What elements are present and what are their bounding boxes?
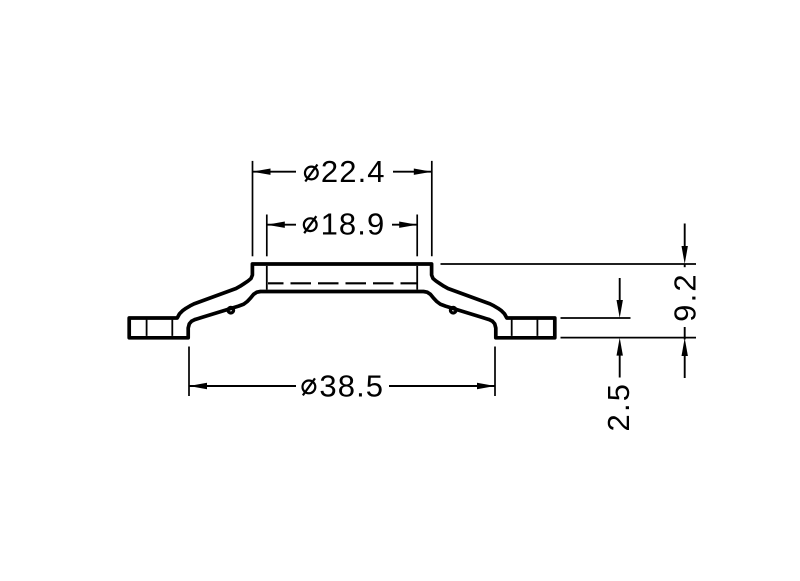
part outline left half (thick visible edge): [129, 264, 342, 338]
dimension ø18.9 text: [304, 218, 317, 231]
inner bore edge right (ø18.9): [416, 266, 418, 290]
dimension ø38.5 extension lines: [188, 347, 190, 397]
svg-text:2.5: 2.5: [601, 382, 636, 432]
svg-text:18.9: 18.9: [321, 207, 386, 242]
dimension 2.5 extension line top: [561, 317, 631, 319]
dimension ø22.4 extension lines: [252, 161, 254, 256]
dimension ø18.9 extension lines: [266, 215, 268, 257]
dimension ø18.9 line + arrows: [267, 224, 296, 226]
dimension 9.2 leaders + arrows: [684, 224, 686, 249]
dimension ø22.4 line + arrows: [253, 171, 297, 173]
svg-text:38.5: 38.5: [319, 369, 384, 404]
hidden dashed line: [268, 282, 417, 284]
svg-text:22.4: 22.4: [321, 154, 386, 189]
dimension ø38.5 line + arrows: [189, 385, 296, 387]
dimension ø22.4 text: [305, 167, 318, 180]
dimension 9.2 extension line top: [441, 263, 697, 265]
flange joint lines right: [511, 320, 513, 336]
flange joint lines left: [146, 320, 148, 336]
part outline right half (mirror): [342, 264, 555, 338]
inner bore edge left (ø18.9): [266, 266, 268, 290]
dimension ø38.5 text: [303, 381, 316, 394]
dimension 2.5 leaders + arrows: [619, 278, 621, 302]
svg-text:9.2: 9.2: [667, 272, 702, 322]
bead bump left: [228, 307, 234, 313]
dimension 9.2/2.5 shared extension line bottom: [561, 337, 697, 339]
bead bump right: [450, 307, 456, 313]
